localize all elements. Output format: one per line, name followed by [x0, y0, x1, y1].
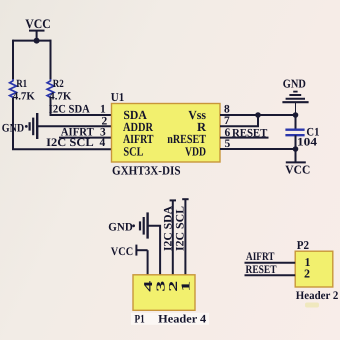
- svg-text:GXHT3X-DIS: GXHT3X-DIS: [112, 164, 181, 178]
- power symbol VCC (right): [286, 149, 306, 162]
- ground symbol GND (left, battery style): [25, 113, 37, 139]
- wire: GND to ADDR pin 2: [37, 125, 111, 127]
- wire: R1 down to SCL net: [12, 98, 14, 149]
- junction dot pin7/pin8: [255, 112, 261, 118]
- wire: I2C SCL net into pin 4: [12, 148, 112, 150]
- svg-text:I2C SDA: I2C SDA: [49, 104, 91, 116]
- svg-text:4.7K: 4.7K: [49, 91, 71, 103]
- svg-text:8: 8: [224, 103, 230, 115]
- wire: I2C SCL stub to P1 pin 1: [182, 199, 188, 275]
- svg-text:4: 4: [100, 137, 106, 149]
- svg-text:VCC: VCC: [25, 16, 51, 31]
- white strip behind P1 caption: [131, 313, 209, 325]
- svg-text:VDD: VDD: [185, 144, 206, 158]
- wire: VCC rail down to R2: [50, 40, 52, 80]
- svg-text:R1: R1: [16, 78, 27, 90]
- connector P2 body: [295, 251, 333, 287]
- svg-text:104: 104: [297, 136, 317, 148]
- svg-text:2: 2: [102, 116, 108, 128]
- wire: rail down to C1: [295, 115, 297, 129]
- wire: VCC to P1 pin 4: [147, 250, 149, 275]
- svg-text:RESET: RESET: [232, 127, 268, 139]
- resistor R2: [47, 79, 54, 99]
- wire: pin 6 nRESET stub: [220, 137, 269, 139]
- wire: pin 5 VDD to VCC rail: [220, 148, 296, 150]
- svg-text:5: 5: [225, 138, 231, 150]
- junction dot Vss rail: [293, 112, 299, 118]
- svg-text:1: 1: [100, 104, 106, 116]
- svg-text:Header 2: Header 2: [296, 290, 339, 302]
- svg-text:7: 7: [224, 115, 230, 127]
- capacitor C1: [285, 130, 304, 136]
- resistor R1: [10, 79, 17, 99]
- ground symbol GND (above P1, battery style): [132, 212, 147, 238]
- connector P1 body: [133, 275, 195, 311]
- svg-text:I2C SDA: I2C SDA: [162, 205, 174, 251]
- power symbol VCC (top-left): [29, 31, 45, 41]
- IC U1 body GXHT3X-DIS: [112, 104, 221, 163]
- svg-text:AIFRT: AIFRT: [246, 251, 275, 263]
- wire: RESET net into P2 pin 2: [245, 274, 296, 276]
- wire: I2C SDA net into pin 1: [50, 114, 112, 116]
- faint smudge below Header 2: [305, 303, 319, 308]
- wire: R2 down to SDA net: [50, 98, 52, 115]
- svg-text:RESET: RESET: [246, 264, 277, 276]
- svg-text:VCC: VCC: [111, 246, 133, 258]
- svg-text:P1: P1: [135, 313, 145, 325]
- power symbol VCC (above P1): [136, 245, 147, 256]
- svg-text:U1: U1: [111, 90, 125, 104]
- junction dot VDD rail: [293, 146, 299, 152]
- wire: pin 7 R stub up to Vss rail: [220, 115, 258, 126]
- wire: GND to P1 pin 3: [148, 226, 161, 275]
- wire: AIFRT net into P2 pin 1: [245, 262, 296, 264]
- svg-text:I2C SCL: I2C SCL: [175, 206, 187, 251]
- wire: C1 down to VDD rail: [295, 135, 297, 149]
- junction dot at VCC rail: [34, 38, 40, 44]
- svg-text:P2: P2: [297, 238, 309, 252]
- svg-text:SCL: SCL: [123, 144, 143, 158]
- svg-text:4.7K: 4.7K: [13, 91, 35, 103]
- ground symbol GND (top right, earth style): [282, 92, 308, 115]
- svg-text:Header 4: Header 4: [158, 313, 206, 325]
- svg-text:GND: GND: [108, 222, 133, 234]
- wire: pin 8 Vss to ground rail: [220, 114, 296, 116]
- svg-text:R2: R2: [53, 78, 64, 90]
- svg-text:GND: GND: [283, 76, 306, 90]
- wire: VCC rail down to R1: [12, 40, 14, 80]
- svg-text:VCC: VCC: [285, 162, 310, 176]
- wire: AIFRT net stub into pin 3: [59, 137, 112, 139]
- wire: I2C SDA stub to P1 pin 2: [170, 200, 176, 274]
- svg-text:I2C SCL: I2C SCL: [46, 137, 94, 149]
- wire: VCC rail horizontal: [13, 40, 51, 42]
- svg-text:1: 1: [179, 281, 193, 292]
- svg-text:2: 2: [304, 266, 310, 280]
